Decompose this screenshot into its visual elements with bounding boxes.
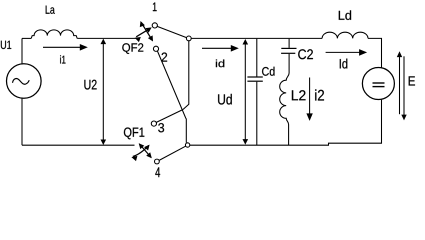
- label 2: [162, 53, 168, 62]
- label Id: [340, 59, 348, 69]
- label QF2: [122, 43, 143, 54]
- wire right-bottom: [190, 100, 382, 146]
- label La: [46, 6, 55, 14]
- current arrow i1: [43, 44, 88, 51]
- voltage arrow U2: [101, 39, 107, 145]
- label Cd: [262, 67, 274, 76]
- label Ud: [218, 94, 232, 105]
- contact 4: [155, 159, 160, 164]
- current arrow i2: [306, 78, 312, 121]
- node bottom junction: [185, 143, 189, 147]
- wire from contact 3: [156, 110, 183, 123]
- wire top-left 2: [77, 37, 136, 39]
- label C2: [298, 49, 313, 59]
- source U1 wire bottom: [21, 98, 23, 145]
- label QF1: [124, 128, 144, 140]
- wire from contact 2: [157, 51, 186, 143]
- inductor Ld: [322, 32, 368, 38]
- current arrow id: [202, 45, 239, 52]
- source E: [362, 68, 394, 100]
- emf arrow E down: [401, 56, 406, 120]
- wire top rail: [191, 37, 322, 39]
- capacitor C2: [281, 39, 296, 73]
- label id: [216, 60, 224, 68]
- switch QF1 arrows: [131, 143, 151, 161]
- label E: [409, 76, 415, 85]
- label i1: [60, 55, 65, 63]
- emf arrow E up: [397, 51, 402, 114]
- contact 2: [153, 46, 158, 51]
- switch QF2 arm: [157, 26, 186, 37]
- contact 3: [151, 121, 156, 126]
- label i2: [315, 89, 324, 100]
- voltage arrow Ud: [243, 39, 249, 145]
- label 4: [155, 167, 160, 177]
- wire top-right: [368, 38, 382, 67]
- switch QF2 arrows: [135, 21, 153, 42]
- inductor L2: [280, 73, 289, 145]
- label Ld: [339, 10, 351, 20]
- capacitor Cd: [247, 39, 262, 145]
- inductor La: [31, 30, 77, 39]
- label U1: [1, 41, 11, 49]
- source U1: [7, 64, 42, 99]
- switch QF1 arm: [159, 146, 186, 160]
- contact 1: [152, 23, 157, 28]
- label L2: [292, 90, 306, 100]
- label U2: [84, 80, 96, 90]
- wire middle vertical: [183, 41, 189, 110]
- source U1 wire top: [21, 38, 23, 64]
- wire bottom-left: [22, 144, 135, 146]
- label 3: [158, 123, 164, 132]
- node top junction: [186, 36, 191, 41]
- current arrow Id: [326, 49, 368, 56]
- label 1: [153, 3, 157, 12]
- wire top-left: [22, 37, 31, 39]
